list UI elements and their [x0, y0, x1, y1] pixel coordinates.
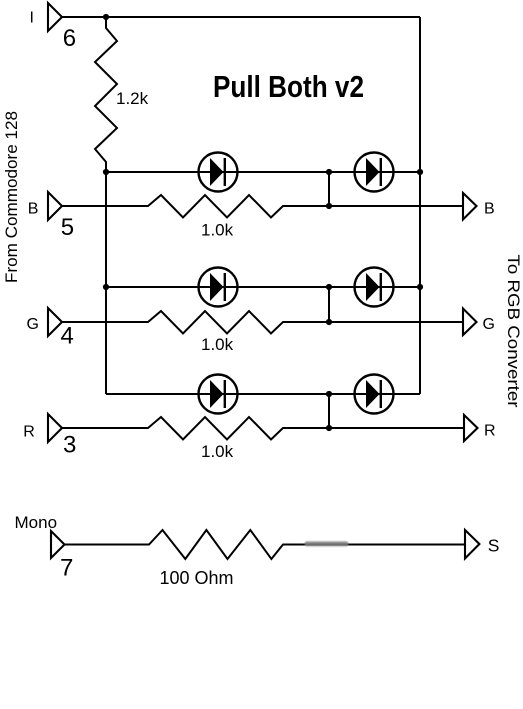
svg-text:I: I: [30, 10, 34, 27]
svg-text:Mono: Mono: [15, 513, 58, 532]
resistor R 1.2k (vertical): [95, 17, 117, 172]
svg-text:1.0k: 1.0k: [201, 335, 234, 354]
output terminal B: [463, 193, 477, 220]
wire row3 diode-level: [106, 393, 420, 395]
svg-text:R: R: [23, 424, 35, 441]
diode D2: [355, 153, 394, 192]
wire stub row3: [328, 394, 330, 428]
output terminal S: [465, 530, 479, 559]
svg-text:4: 4: [61, 323, 74, 350]
pin Mono (input, pin 7): [51, 531, 65, 558]
node junction stub top row3: [326, 391, 332, 397]
node junction left rail row2: [103, 284, 109, 290]
wire row3 output: [62, 417, 464, 440]
svg-text:1.0k: 1.0k: [201, 221, 234, 240]
wire stub row2: [328, 287, 330, 322]
svg-text:To RGB Converter: To RGB Converter: [504, 255, 522, 409]
diode D3: [199, 268, 238, 307]
svg-text:From Commodore 128: From Commodore 128: [3, 111, 21, 283]
svg-text:1.2k: 1.2k: [116, 89, 149, 108]
svg-text:G: G: [27, 316, 39, 333]
wire row1 output: [62, 195, 463, 218]
svg-text:B: B: [28, 200, 39, 217]
node junction stub bottom row1: [326, 203, 332, 209]
svg-text:S: S: [488, 536, 500, 556]
node junction left rail row1: [103, 169, 109, 175]
wire top rail from pin 6 to right rail corner: [62, 16, 420, 18]
output terminal G: [463, 309, 477, 336]
node junction stub bottom row3: [326, 425, 332, 431]
node junction at top of 1.2k: [103, 14, 109, 20]
svg-text:3: 3: [63, 432, 76, 459]
wire row2 diode-level: [106, 286, 420, 288]
node junction stub top row1: [326, 169, 332, 175]
svg-text:B: B: [484, 201, 495, 218]
node junction right rail row2: [417, 284, 423, 290]
svg-text:1.0k: 1.0k: [201, 442, 234, 461]
svg-text:100 Ohm: 100 Ohm: [160, 568, 234, 588]
wire row2 output: [62, 311, 463, 334]
wire left rail below 1.2k: [105, 172, 107, 394]
diode D4: [355, 268, 394, 307]
gray smudge artifact on mono wire: [305, 541, 349, 546]
pin G (input, pin 4): [48, 308, 62, 336]
node junction right rail row1: [417, 169, 423, 175]
svg-text:7: 7: [60, 555, 73, 582]
svg-text:G: G: [483, 316, 495, 333]
pin B (input, pin 5): [48, 192, 62, 220]
diode D6: [355, 375, 394, 414]
diode D1: [199, 153, 238, 192]
node junction stub bottom row2: [326, 319, 332, 325]
wire stub row1 between diode wire and output wire: [328, 172, 330, 206]
node junction stub top row2: [326, 284, 332, 290]
svg-text:6: 6: [63, 25, 76, 52]
output terminal R: [464, 415, 478, 441]
pin R (input, pin 3): [48, 414, 62, 442]
wire row1 diode-level: [106, 171, 420, 173]
wire mono output with resistor zigzag: [65, 530, 466, 559]
wire right rail vertical: [419, 17, 421, 394]
svg-text:5: 5: [61, 214, 74, 241]
pin I (input, pin 6): [48, 3, 62, 31]
svg-text:Pull Both v2: Pull Both v2: [213, 69, 364, 104]
svg-text:R: R: [484, 423, 496, 440]
diode D5: [199, 375, 238, 414]
